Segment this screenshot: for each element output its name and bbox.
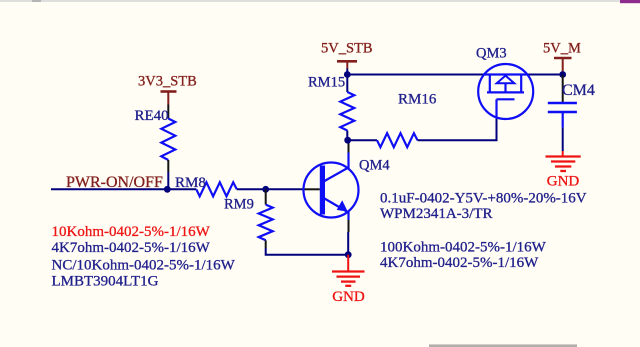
svg-text:QM3: QM3: [476, 46, 507, 62]
svg-text:RM16: RM16: [398, 92, 437, 108]
resistor RM16 body: [377, 133, 418, 147]
svg-text:100Kohm-0402-5%-1/16W: 100Kohm-0402-5%-1/16W: [380, 240, 547, 256]
resistor RM9 body: [259, 205, 273, 241]
ground symbol under CM4: [562, 151, 564, 156]
wire QM4 emitter to node C: [347, 232, 349, 255]
resistor RE40 top pin: [167, 105, 169, 119]
junction node B: [262, 186, 269, 193]
svg-text:RM8: RM8: [175, 175, 206, 191]
ground symbol under QM4: [347, 255, 349, 271]
wire RM9 bottom corner: [266, 248, 349, 255]
power port 5V_STB bar: [337, 60, 357, 63]
svg-text:NC/10Kohm-0402-5%-1/16W: NC/10Kohm-0402-5%-1/16W: [52, 258, 236, 274]
svg-text:5V_STB: 5V_STB: [321, 41, 373, 57]
svg-text:LMBT3904LT1G: LMBT3904LT1G: [52, 273, 159, 289]
capacitor CM4 top pin: [562, 75, 564, 104]
bottom horizontal scrollbar thumb: [429, 344, 577, 347]
transistor QM4 base bar: [320, 166, 325, 215]
junction node D: [344, 71, 351, 78]
svg-text:WPM2341A-3/TR: WPM2341A-3/TR: [380, 206, 493, 222]
power port 5V_M bar: [554, 57, 572, 60]
wire RM16 to QM3 gate: [418, 117, 497, 140]
resistor RM15 body: [340, 92, 354, 131]
transistor QM4 collector stroke: [325, 153, 349, 182]
power port 3V3_STB bar: [161, 90, 177, 93]
svg-text:4K7ohm-0402-5%-1/16W: 4K7ohm-0402-5%-1/16W: [380, 255, 539, 271]
power port 3V3_STB stem: [167, 92, 169, 105]
transistor QM4 emitter pin: [348, 220, 350, 232]
transistor QM4 collector pin: [348, 141, 350, 153]
resistor RM8 body: [196, 182, 237, 196]
junction node A: [164, 186, 171, 193]
svg-text:10Kohm-0402-5%-1/16W: 10Kohm-0402-5%-1/16W: [52, 224, 211, 240]
wire CM4 to ground: [562, 128, 564, 151]
power port 5V_M stem: [562, 58, 564, 72]
wire RE40 to node A: [167, 172, 169, 189]
capacitor CM4 bottom plate: [548, 111, 577, 114]
svg-text:0.1uF-0402-Y5V-+80%-20%-16V: 0.1uF-0402-Y5V-+80%-20%-16V: [380, 191, 587, 207]
resistor RM9 bottom pin: [265, 240, 267, 248]
resistor RE40 body: [161, 119, 175, 161]
resistor RM9 top pin: [265, 189, 267, 204]
wire PWR-ON/OFF horizontal: [51, 188, 196, 190]
wire RM15 to node E: [346, 131, 348, 141]
svg-text:RM9: RM9: [224, 197, 254, 213]
mosfet QM3 body: [478, 64, 533, 119]
svg-text:4K7ohm-0402-5%-1/16W: 4K7ohm-0402-5%-1/16W: [52, 240, 211, 256]
resistor RE40 bottom pin: [167, 160, 169, 172]
svg-text:RE40: RE40: [135, 108, 169, 124]
wire 5V_STB to RM15: [346, 69, 348, 93]
wire RM8 to node B: [237, 188, 304, 190]
junction node C: [345, 251, 352, 258]
svg-text:GND: GND: [332, 289, 365, 305]
transistor QM4 body circle: [304, 163, 359, 218]
svg-text:CM4: CM4: [562, 82, 595, 99]
capacitor CM4 top plate: [548, 102, 577, 105]
top-right purple bar: [620, 0, 640, 3]
transistor QM4 emitter stroke: [325, 199, 349, 221]
wire top rail 5V_STB to 5V_M: [347, 74, 562, 76]
svg-text:GND: GND: [547, 174, 580, 190]
power port 5V_STB stem: [346, 61, 348, 68]
svg-text:3V3_STB: 3V3_STB: [138, 74, 197, 90]
wire node E to RM16: [348, 139, 377, 141]
capacitor CM4 bottom pin: [562, 112, 564, 128]
window top edge line: [0, 0, 640, 2]
svg-text:QM4: QM4: [359, 158, 390, 174]
svg-text:5V_M: 5V_M: [543, 41, 581, 57]
svg-text:RM15: RM15: [308, 75, 345, 91]
top edge tick: [32, 0, 41, 2]
junction node F: [559, 71, 566, 78]
transistor QM4 emitter arrow: [337, 200, 348, 211]
junction node E: [344, 137, 351, 144]
transistor QM4 base pin: [304, 188, 320, 190]
